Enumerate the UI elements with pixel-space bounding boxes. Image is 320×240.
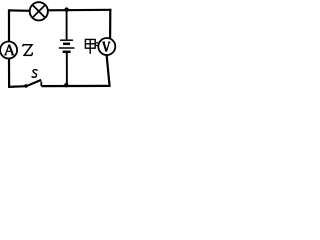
wire top-right segment [48,9,112,12]
wire left lower segment [8,58,10,87]
switch S blade [26,80,41,87]
battery cell plate long 2 [59,47,75,49]
label 乙 (meter B) [22,45,32,56]
wire bottom-left segment [8,85,26,88]
node junction bottom [64,83,68,87]
ammeter [0,42,17,59]
wire right upper segment [109,9,111,38]
label 甲 (meter A) [85,39,95,53]
switch S contact [40,82,42,87]
switch S label [32,70,38,78]
battery cell plate short 2 [63,51,71,54]
wire middle branch lower [66,52,68,86]
wire top-left segment [8,9,30,12]
wire bottom-right segment [41,85,110,87]
lamp [30,2,48,20]
switch S pivot [24,84,28,88]
wire middle branch upper [66,10,68,41]
wire right lower segment [107,55,110,87]
scan marks left of voltmeter [96,43,99,46]
voltmeter [98,38,115,55]
battery cell plate long 1 [60,39,73,41]
battery cell plate short 1 [63,43,70,46]
node junction top [64,7,68,11]
wire left upper segment [8,9,10,41]
